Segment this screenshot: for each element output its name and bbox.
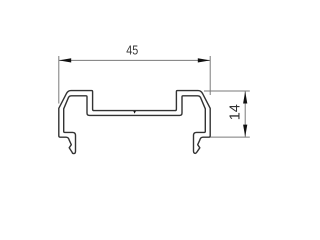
small center marker triangle on web top: [133, 111, 136, 114]
arrowhead bottom of 14 dim: [243, 125, 247, 137]
svg-text:14: 14: [227, 104, 243, 120]
dimension line 45: [59, 59, 210, 61]
extension line left of 45 dim: [58, 56, 60, 104]
extension line right of 45 dim: [209, 56, 211, 95]
svg-text:45: 45: [126, 43, 138, 58]
dimension line 14: [244, 91, 246, 137]
extension line bottom of 14 dim: [209, 136, 250, 138]
arrowhead left of 45 dim: [59, 58, 71, 62]
cover profile outline (45x14 cross-section): [59, 91, 210, 154]
arrowhead top of 14 dim: [243, 91, 247, 103]
arrowhead right of 45 dim: [198, 58, 210, 62]
extension line top of 14 dim: [204, 90, 250, 92]
